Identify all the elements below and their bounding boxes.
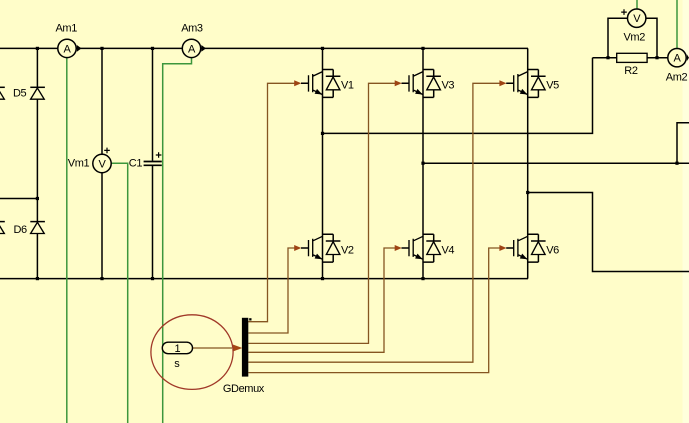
svg-text:Vm1: Vm1 xyxy=(68,158,90,170)
wire: phase A output to R2 node xyxy=(323,58,593,134)
IGBT V2 xyxy=(301,234,340,262)
signal source port 1 xyxy=(162,342,192,354)
wire: green measurement wire from Am1 xyxy=(66,58,68,423)
wire: bottom DC bus xyxy=(0,278,528,280)
svg-text:C1: C1 xyxy=(129,158,143,170)
wire: phase B output to right edge xyxy=(423,162,689,164)
node: leg1 / top bus xyxy=(321,47,324,50)
ammeter Am3 xyxy=(182,39,206,57)
voltmeter Vm1 xyxy=(93,148,111,173)
node: D-string mid tap xyxy=(36,197,39,200)
node: C1 / top bus xyxy=(151,47,154,50)
arrow into V5 gate xyxy=(499,80,506,86)
wire: left rectifier leg (D5/D6 string) xyxy=(36,48,38,278)
svg-text:D6: D6 xyxy=(14,224,28,236)
node: leg2 / top bus xyxy=(421,47,424,50)
svg-text:Vm2: Vm2 xyxy=(624,31,646,43)
svg-text:V1: V1 xyxy=(341,80,354,92)
node: leg1 / bottom bus xyxy=(321,277,324,280)
svg-text:V2: V2 xyxy=(341,244,354,256)
svg-text:Am3: Am3 xyxy=(181,23,203,35)
arrow into V6 gate xyxy=(499,245,506,251)
arrow into V1 gate xyxy=(294,80,301,86)
GDemux bar xyxy=(242,318,248,377)
svg-text:V3: V3 xyxy=(442,80,455,92)
node: D-string / bottom bus xyxy=(36,277,39,280)
voltmeter Vm2 xyxy=(621,9,646,27)
node: R2 left / Vm2 xyxy=(606,56,609,59)
ammeter Am1 xyxy=(58,39,82,57)
node: phase B junction xyxy=(421,162,424,165)
svg-text:A: A xyxy=(64,43,72,55)
diode (partial, off-screen leg, top) xyxy=(0,87,5,99)
IGBT V4 xyxy=(402,234,441,262)
wire: inverter leg 1 vertical xyxy=(322,48,324,278)
wire: gate signal V1 xyxy=(248,83,294,321)
arrow into GDemux input xyxy=(233,344,243,351)
arrow into V2 gate xyxy=(294,245,301,251)
arrow into V3 gate xyxy=(395,80,402,86)
node: C1 / bottom bus xyxy=(151,277,154,280)
svg-text:D5: D5 xyxy=(13,88,27,100)
ammeter Am2 xyxy=(668,49,689,67)
wire: phase C output to right edge xyxy=(528,193,689,272)
wire: gate signal V6 xyxy=(248,248,499,373)
resistor R2 xyxy=(617,53,647,62)
node: phase C junction xyxy=(526,191,529,194)
svg-text:V4: V4 xyxy=(442,244,455,256)
wire: inverter leg 3 vertical xyxy=(527,48,529,278)
diode D5 xyxy=(30,87,45,99)
IGBT V3 xyxy=(402,70,441,98)
right edge light band xyxy=(683,0,689,423)
diode D6 xyxy=(30,222,45,234)
signal source selection ellipse xyxy=(151,315,233,390)
wire: mid-left horizontal to off-screen leg xyxy=(0,198,37,200)
svg-text:Am2: Am2 xyxy=(666,72,688,84)
wire: gate signal V4 xyxy=(248,248,395,352)
GDemux port marker xyxy=(249,318,251,320)
wire: GDemux input signal xyxy=(193,347,233,349)
wire: green wire into Am2 xyxy=(676,0,678,49)
svg-text:V6: V6 xyxy=(546,244,559,256)
IGBT V6 xyxy=(506,234,545,262)
svg-text:V: V xyxy=(99,158,107,170)
wire: gate signal V3 xyxy=(248,83,395,343)
IGBT V1 xyxy=(301,70,340,98)
svg-text:A: A xyxy=(188,43,196,55)
svg-text:1: 1 xyxy=(175,343,181,355)
node: Vm1 / top bus xyxy=(100,47,103,50)
node: leg2 / bottom bus xyxy=(421,277,424,280)
node: D-string / top bus xyxy=(36,47,39,50)
node: phase A junction xyxy=(321,132,324,135)
wire: green wire into Vm2 xyxy=(636,0,638,10)
wire: gate signal V2 xyxy=(248,248,294,333)
wire: gate signal V5 xyxy=(248,83,499,362)
svg-text:Am1: Am1 xyxy=(56,23,78,35)
node: R2 right / Vm2 xyxy=(655,56,658,59)
IGBT V5 xyxy=(506,70,545,98)
arrow into V4 gate xyxy=(395,245,402,251)
wire: Vm2 left lead xyxy=(608,18,628,58)
svg-text:V5: V5 xyxy=(546,80,559,92)
wire: Vm1 branch xyxy=(101,48,103,278)
svg-text:V: V xyxy=(633,13,641,25)
wire: inverter leg 2 vertical xyxy=(422,48,424,278)
wire: green measurement wire from Am3 xyxy=(163,58,192,423)
node: phase B right split xyxy=(675,162,678,165)
svg-text:s: s xyxy=(174,358,180,370)
diode (partial, off-screen leg, bottom) xyxy=(0,222,5,234)
node: Vm1 / bottom bus xyxy=(100,277,103,280)
capacitor C1 xyxy=(144,152,162,165)
wire: C1 branch xyxy=(152,48,154,278)
wire: R2 net horizontal xyxy=(593,57,668,59)
wire: phase B upper branch to right edge xyxy=(677,123,689,163)
svg-text:GDemux: GDemux xyxy=(223,383,265,395)
wire: Vm2 right lead xyxy=(646,18,657,58)
wire: top DC bus xyxy=(0,47,528,49)
wire: green measurement wire from Vm1 xyxy=(111,163,127,423)
svg-text:A: A xyxy=(674,53,682,65)
svg-text:R2: R2 xyxy=(624,65,638,77)
